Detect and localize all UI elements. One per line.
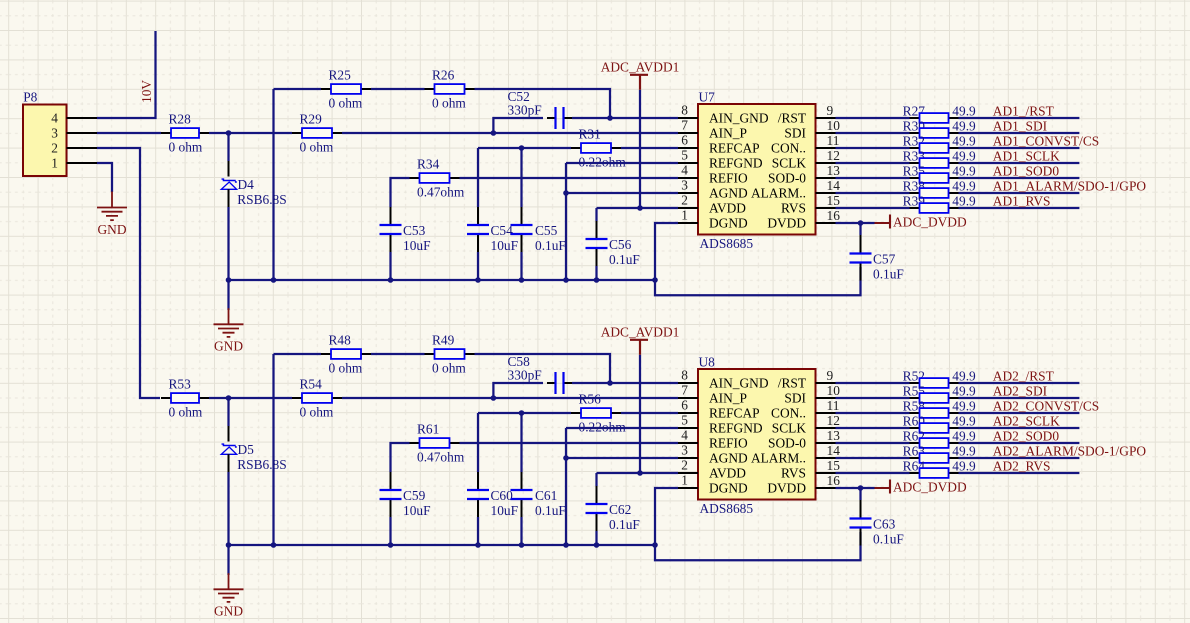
junction <box>563 455 569 461</box>
wire to net AD1_SOD0 <box>959 177 1080 179</box>
svg-text:P8: P8 <box>23 89 37 104</box>
svg-text:R48: R48 <box>329 333 352 348</box>
svg-text:CON..: CON.. <box>771 405 806 420</box>
wire zener to rail <box>228 454 230 472</box>
svg-text:2: 2 <box>51 140 58 155</box>
svg-text:330pF: 330pF <box>508 103 542 118</box>
svg-text:R53: R53 <box>169 377 192 392</box>
junction <box>858 485 864 491</box>
power wire ADC_AVDD1 <box>639 90 641 208</box>
capacitor C54 <box>467 207 518 253</box>
wire to net AD2_SCLK <box>959 427 1080 429</box>
wire AVDD row <box>597 472 679 474</box>
wire REFGND row <box>566 162 678 164</box>
svg-text:49.9: 49.9 <box>952 398 976 413</box>
svg-text:R34: R34 <box>417 157 440 172</box>
svg-text:ADC_AVDD1: ADC_AVDD1 <box>601 59 680 74</box>
wire zener to rail <box>228 189 230 207</box>
svg-text:9: 9 <box>827 368 834 383</box>
wire feed row <box>274 88 322 90</box>
junction <box>519 542 525 548</box>
wire AGND row <box>566 192 678 194</box>
wire DGND loop <box>655 223 861 295</box>
resistor R54 <box>292 377 342 420</box>
svg-text:7: 7 <box>681 383 688 398</box>
svg-text:0 ohm: 0 ohm <box>300 139 334 154</box>
connector P8 <box>23 89 67 176</box>
capacitor C57 <box>850 236 904 282</box>
junction <box>271 277 277 283</box>
resistor R48 <box>321 333 371 376</box>
svg-text:C60: C60 <box>491 488 514 503</box>
wire DGND loop <box>655 488 861 560</box>
resistor R56 <box>571 392 626 435</box>
wire REFGND row <box>566 427 678 429</box>
junction <box>226 277 232 283</box>
junction <box>491 395 497 401</box>
svg-text:R54: R54 <box>300 377 323 392</box>
svg-text:CON..: CON.. <box>771 140 806 155</box>
wire to net AD2_ALARM/SDO-1/GPO <box>959 457 1080 459</box>
svg-text:0.1uF: 0.1uF <box>873 532 904 547</box>
resistor R26 <box>425 68 475 111</box>
wire feed row <box>274 353 322 355</box>
svg-text:/RST: /RST <box>778 110 806 125</box>
diode D4 <box>221 177 286 207</box>
svg-text:11: 11 <box>827 133 840 148</box>
svg-text:4: 4 <box>681 428 688 443</box>
svg-text:49.9: 49.9 <box>952 368 976 383</box>
resistor R33 <box>903 148 976 168</box>
wire to net AD2_SDI <box>959 397 1080 399</box>
wire DVDD row <box>836 487 875 489</box>
svg-text:10: 10 <box>827 118 841 133</box>
resistor R28 <box>161 112 209 155</box>
wire pin9 to R52 <box>836 382 910 384</box>
junction <box>652 542 658 548</box>
resistor R35 <box>903 163 976 183</box>
svg-text:13: 13 <box>827 428 841 443</box>
svg-text:0 ohm: 0 ohm <box>432 95 466 110</box>
svg-text:R61: R61 <box>417 422 439 437</box>
wire C55 column <box>520 413 522 472</box>
wire pin11 to R58 <box>836 412 910 414</box>
svg-text:12: 12 <box>827 148 840 163</box>
junction <box>607 115 613 121</box>
svg-text:DGND: DGND <box>709 215 748 230</box>
svg-text:R28: R28 <box>169 112 192 127</box>
svg-text:U7: U7 <box>699 89 716 104</box>
diode D5 <box>221 442 286 472</box>
wire P8.1 to GND <box>97 163 112 192</box>
svg-text:U8: U8 <box>699 354 716 369</box>
svg-text:AVDD: AVDD <box>709 465 746 480</box>
svg-text:C54: C54 <box>491 223 514 238</box>
svg-text:7: 7 <box>681 118 688 133</box>
svg-text:13: 13 <box>827 163 841 178</box>
junction <box>563 277 569 283</box>
svg-text:0 ohm: 0 ohm <box>169 404 203 419</box>
junction <box>563 542 569 548</box>
junction <box>594 277 600 283</box>
resistor R64 <box>903 458 976 478</box>
svg-text:8: 8 <box>681 368 688 383</box>
svg-text:AD1_RVS: AD1_RVS <box>993 194 1051 209</box>
power port ADC_DVDD <box>875 479 967 494</box>
wire to net AD2_CONVST/CS <box>959 412 1080 414</box>
svg-text:R25: R25 <box>329 68 352 83</box>
svg-text:AD2_SDI: AD2_SDI <box>993 384 1047 399</box>
junction <box>491 130 497 136</box>
wire to AIN_GND <box>610 382 678 384</box>
svg-text:ADC_AVDD1: ADC_AVDD1 <box>601 324 680 339</box>
svg-text:49.9: 49.9 <box>952 193 976 208</box>
junction <box>519 277 525 283</box>
svg-text:SCLK: SCLK <box>772 420 807 435</box>
svg-text:ADC_DVDD: ADC_DVDD <box>893 214 967 229</box>
resistor R39 <box>903 193 976 213</box>
svg-text:AGND: AGND <box>709 450 748 465</box>
svg-text:15: 15 <box>827 193 841 208</box>
svg-text:0 ohm: 0 ohm <box>169 139 203 154</box>
junction <box>388 277 394 283</box>
capacitor C56 <box>586 221 640 267</box>
svg-text:R26: R26 <box>432 68 455 83</box>
svg-text:10uF: 10uF <box>491 503 519 518</box>
resistor R25 <box>321 68 371 111</box>
svg-text:AD2_ALARM/SDO-1/GPO: AD2_ALARM/SDO-1/GPO <box>993 444 1147 459</box>
svg-text:REFCAP: REFCAP <box>709 140 760 155</box>
capacitor C58 <box>508 354 573 394</box>
svg-text:3: 3 <box>681 178 688 193</box>
wire R53 to R54 <box>209 397 292 399</box>
svg-text:0 ohm: 0 ohm <box>329 95 363 110</box>
wire R49 to pin8 <box>475 354 611 383</box>
svg-text:C57: C57 <box>873 252 896 267</box>
wire ground rail <box>229 544 656 546</box>
svg-text:REFIO: REFIO <box>709 435 748 450</box>
svg-text:3: 3 <box>681 443 688 458</box>
wire ground feed vertical x273 <box>272 89 274 280</box>
power port ADC_AVDD1 <box>601 59 680 89</box>
svg-text:/RST: /RST <box>778 375 806 390</box>
svg-text:C61: C61 <box>535 488 557 503</box>
wire rail to GND <box>227 545 229 575</box>
svg-text:1: 1 <box>681 208 688 223</box>
wire C52 branch <box>493 383 543 398</box>
resistor R53 <box>161 377 209 420</box>
svg-text:DVDD: DVDD <box>767 480 806 495</box>
svg-text:0.1uF: 0.1uF <box>535 238 566 253</box>
svg-text:AIN_P: AIN_P <box>709 125 747 140</box>
power port ADC_DVDD <box>875 214 967 229</box>
wire to net AD1_ALARM/SDO-1/GPO <box>959 192 1080 194</box>
wire P8.2 down to R53 <box>97 148 160 398</box>
svg-text:AD2_SCLK: AD2_SCLK <box>993 414 1060 429</box>
svg-text:1: 1 <box>681 473 688 488</box>
svg-text:9: 9 <box>827 103 834 118</box>
wire cap to junction <box>572 382 610 384</box>
svg-text:REFGND: REFGND <box>709 155 763 170</box>
junction <box>637 205 643 211</box>
IC U8 pin stubs <box>678 382 698 384</box>
wire C54 column <box>477 148 479 207</box>
junction <box>226 395 232 401</box>
svg-text:11: 11 <box>827 398 840 413</box>
svg-text:0 ohm: 0 ohm <box>432 360 466 375</box>
wire to zener <box>227 133 229 161</box>
svg-text:R31: R31 <box>579 127 601 142</box>
wire pin15 to R64 <box>836 472 910 474</box>
capacitor C62 <box>586 486 640 532</box>
svg-text:C62: C62 <box>609 502 631 517</box>
wire ground rail <box>229 279 656 281</box>
svg-text:R29: R29 <box>300 112 323 127</box>
wire R25 to R26 <box>371 88 425 90</box>
junction <box>519 410 525 416</box>
svg-text:GND: GND <box>214 339 243 354</box>
wire C55 column <box>520 148 522 207</box>
wire AVDD row <box>597 207 679 209</box>
resistor R34 <box>410 157 465 200</box>
svg-text:RSB6.8S: RSB6.8S <box>237 192 287 207</box>
svg-text:0 ohm: 0 ohm <box>300 404 334 419</box>
svg-text:0.1uF: 0.1uF <box>609 517 640 532</box>
svg-text:AIN_P: AIN_P <box>709 390 747 405</box>
power port ADC_AVDD1 <box>601 324 680 354</box>
svg-text:49.9: 49.9 <box>952 103 976 118</box>
resistor R49 <box>425 333 475 376</box>
resistor R60 <box>903 413 976 433</box>
svg-text:ADS8685: ADS8685 <box>700 236 754 251</box>
svg-text:4: 4 <box>681 163 688 178</box>
svg-text:14: 14 <box>827 443 841 458</box>
wire REFCAP row <box>478 147 571 149</box>
wire to net AD1_RVS <box>959 207 1080 209</box>
wire R29 to AIN_P <box>342 132 678 134</box>
svg-text:SOD-0: SOD-0 <box>768 170 806 185</box>
svg-text:SDI: SDI <box>784 125 806 140</box>
svg-text:5: 5 <box>681 148 688 163</box>
wire REFCAP row <box>478 412 571 414</box>
svg-text:SOD-0: SOD-0 <box>768 435 806 450</box>
svg-text:5: 5 <box>681 413 688 428</box>
ground GND (P8) <box>97 192 127 237</box>
svg-text:AD2_/RST: AD2_/RST <box>993 369 1054 384</box>
wire REFGND down to AGND/rail <box>565 163 567 280</box>
svg-text:AD1_/RST: AD1_/RST <box>993 104 1054 119</box>
junction <box>858 220 864 226</box>
ground GND rail <box>214 308 244 353</box>
wire R34 to REFIO <box>460 442 679 444</box>
svg-text:AIN_GND: AIN_GND <box>709 110 769 125</box>
svg-text:D4: D4 <box>238 177 255 192</box>
svg-text:10uF: 10uF <box>491 238 519 253</box>
svg-text:3: 3 <box>51 125 58 140</box>
svg-text:49.9: 49.9 <box>952 428 976 443</box>
wire cap to junction <box>572 117 610 119</box>
wire pin9 to R27 <box>836 117 910 119</box>
svg-text:R56: R56 <box>579 392 602 407</box>
capacitor C63 <box>850 501 904 547</box>
svg-text:SDI: SDI <box>784 390 806 405</box>
junction <box>563 190 569 196</box>
wire to zener <box>227 398 229 426</box>
ground GND rail <box>214 573 244 618</box>
resistor R58 <box>903 398 976 418</box>
svg-text:10V: 10V <box>139 80 154 103</box>
junction <box>226 130 232 136</box>
svg-text:AD1_SCLK: AD1_SCLK <box>993 149 1060 164</box>
svg-text:49.9: 49.9 <box>952 178 976 193</box>
wire rail to GND <box>227 280 229 310</box>
wire to net AD1_SCLK <box>959 162 1080 164</box>
wire R26 to pin8 <box>475 89 611 118</box>
svg-text:0.1uF: 0.1uF <box>609 252 640 267</box>
capacitor C52 <box>508 89 573 129</box>
svg-text:12: 12 <box>827 413 840 428</box>
svg-text:0.47ohm: 0.47ohm <box>417 449 465 464</box>
svg-text:49.9: 49.9 <box>952 458 976 473</box>
resistor R62 <box>903 428 976 448</box>
capacitor C61 <box>511 472 566 518</box>
svg-text:10uF: 10uF <box>403 503 431 518</box>
capacitor C59 <box>380 472 431 518</box>
resistor R63 <box>903 443 976 463</box>
svg-text:AD1_CONVST/CS: AD1_CONVST/CS <box>993 134 1099 149</box>
resistor R55 <box>903 383 976 403</box>
svg-text:ALARM..: ALARM.. <box>751 185 806 200</box>
power wire ADC_AVDD1 <box>639 355 641 473</box>
svg-text:0 ohm: 0 ohm <box>329 360 363 375</box>
wire P8.3 to R28 <box>97 132 161 134</box>
wire C54 column <box>477 413 479 472</box>
svg-text:49.9: 49.9 <box>952 383 976 398</box>
wire to REFCAP pin <box>621 412 678 414</box>
svg-text:2: 2 <box>681 193 688 208</box>
svg-text:AVDD: AVDD <box>709 200 746 215</box>
wire DVDD row <box>836 222 875 224</box>
svg-text:10uF: 10uF <box>403 238 431 253</box>
resistor R61 <box>410 422 465 465</box>
wire R34 to REFIO <box>460 177 679 179</box>
svg-text:AD1_SOD0: AD1_SOD0 <box>993 164 1060 179</box>
svg-text:D5: D5 <box>238 442 255 457</box>
svg-text:49.9: 49.9 <box>952 443 976 458</box>
wire to AIN_GND <box>610 117 678 119</box>
svg-text:49.9: 49.9 <box>952 163 976 178</box>
op-amp/IC U7 ADS8685 <box>681 89 840 251</box>
svg-text:DGND: DGND <box>709 480 748 495</box>
resistor R30 <box>903 118 976 138</box>
svg-text:2: 2 <box>681 458 688 473</box>
svg-text:AD2_RVS: AD2_RVS <box>993 459 1051 474</box>
svg-text:ADC_DVDD: ADC_DVDD <box>893 479 967 494</box>
wire pin13 to R35 <box>836 177 910 179</box>
wire ground feed vertical x273 <box>272 354 274 545</box>
wire pin12 to R33 <box>836 162 910 164</box>
svg-text:RVS: RVS <box>781 200 806 215</box>
svg-text:49.9: 49.9 <box>952 133 976 148</box>
junction <box>637 470 643 476</box>
resistor R32 <box>903 133 976 153</box>
svg-text:0.1uF: 0.1uF <box>873 267 904 282</box>
svg-text:GND: GND <box>214 604 243 619</box>
svg-text:GND: GND <box>97 222 126 237</box>
svg-text:C63: C63 <box>873 517 896 532</box>
resistor R31 <box>571 127 626 170</box>
wire pin10 to R55 <box>836 397 910 399</box>
svg-text:49.9: 49.9 <box>952 118 976 133</box>
resistor R29 <box>292 112 342 155</box>
wire C52 branch <box>493 118 543 133</box>
wire R34 left to C53 column <box>391 443 410 472</box>
wire pin14 to R38 <box>836 192 910 194</box>
wire to net AD1_CONVST/CS <box>959 147 1080 149</box>
wire R48 to R49 <box>371 353 425 355</box>
svg-text:14: 14 <box>827 178 841 193</box>
junction <box>226 542 232 548</box>
svg-text:C53: C53 <box>403 223 426 238</box>
svg-text:REFIO: REFIO <box>709 170 748 185</box>
svg-text:6: 6 <box>681 398 688 413</box>
wire R28 to R29 <box>209 132 292 134</box>
IC U7 pin stubs <box>678 117 698 119</box>
svg-text:REFCAP: REFCAP <box>709 405 760 420</box>
wire C56 column <box>595 473 597 486</box>
svg-text:8: 8 <box>681 103 688 118</box>
svg-text:330pF: 330pF <box>508 368 542 383</box>
wire R54 to AIN_P <box>342 397 678 399</box>
wire to net AD2_SOD0 <box>959 442 1080 444</box>
svg-text:ADS8685: ADS8685 <box>700 501 754 516</box>
wire to REFCAP pin <box>621 147 678 149</box>
resistor R27 <box>903 103 976 123</box>
junction <box>607 380 613 386</box>
svg-text:AD2_SOD0: AD2_SOD0 <box>993 429 1060 444</box>
junction <box>475 542 481 548</box>
P8 pin stubs <box>67 117 98 119</box>
wire pin12 to R60 <box>836 427 910 429</box>
svg-text:16: 16 <box>827 208 841 223</box>
svg-text:10: 10 <box>827 383 841 398</box>
resistor R52 <box>903 368 976 388</box>
svg-text:DVDD: DVDD <box>767 215 806 230</box>
svg-text:AD1_ALARM/SDO-1/GPO: AD1_ALARM/SDO-1/GPO <box>993 179 1147 194</box>
junction <box>388 542 394 548</box>
svg-text:49.9: 49.9 <box>952 148 976 163</box>
wire AGND row <box>566 457 678 459</box>
svg-text:C55: C55 <box>535 223 558 238</box>
svg-text:49.9: 49.9 <box>952 413 976 428</box>
op-amp/IC U8 ADS8685 <box>681 354 840 516</box>
wire P8.4 to 10V stub <box>97 31 156 118</box>
wire pin14 to R63 <box>836 457 910 459</box>
capacitor C60 <box>467 472 518 518</box>
svg-text:4: 4 <box>51 110 58 125</box>
junction <box>475 277 481 283</box>
wire to net AD1_/RST <box>959 117 1080 119</box>
junction <box>271 542 277 548</box>
wire R34 left to C53 column <box>391 178 410 207</box>
svg-text:6: 6 <box>681 133 688 148</box>
junction <box>594 542 600 548</box>
capacitor C53 <box>380 207 431 253</box>
wire REFGND down to AGND/rail <box>565 428 567 545</box>
wire pin11 to R32 <box>836 147 910 149</box>
svg-text:AD2_CONVST/CS: AD2_CONVST/CS <box>993 399 1099 414</box>
svg-text:C56: C56 <box>609 237 632 252</box>
